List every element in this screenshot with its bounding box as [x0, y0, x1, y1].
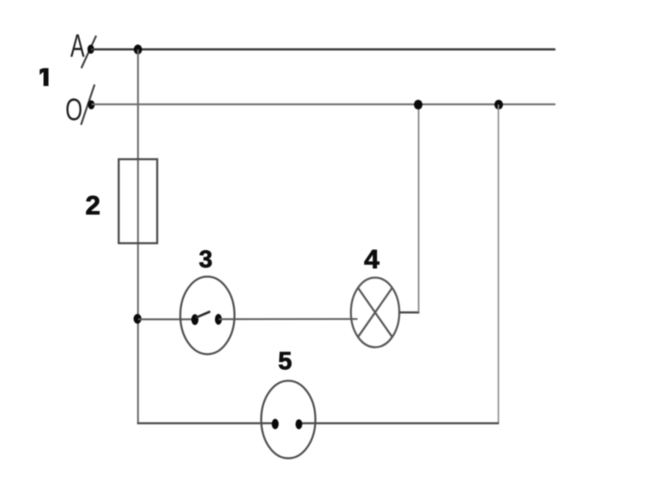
lamp L (label 4) body circle: [351, 278, 399, 348]
label 4: [365, 250, 380, 268]
wire: lamp to neutral riser: [399, 311, 419, 313]
net label A (phase): [70, 34, 84, 56]
wire: bottom run right (socket return): [300, 422, 500, 424]
wire: bottom run left (to socket): [137, 422, 276, 424]
wire: neutral line O: [92, 103, 556, 105]
lamp X stroke 1: [358, 288, 392, 337]
lamp X stroke 2: [358, 288, 392, 337]
switch right contact dot: [215, 314, 222, 325]
terminal dot at O: [88, 100, 95, 109]
socket X (label 5) body circle: [261, 381, 315, 459]
phase feed break slash at A: [81, 36, 96, 69]
wire: neutral riser for lamp: [418, 104, 420, 312]
label 5: [279, 352, 291, 369]
junction on line O (socket return): [494, 100, 503, 110]
switch lever: [197, 312, 209, 317]
junction on phase drop (node to switch branch): [134, 314, 142, 324]
wire: phase line A: [91, 48, 555, 50]
fuse F (label 2) rectangle: [119, 159, 158, 243]
wire: neutral riser and bottom run for socket: [497, 105, 499, 423]
socket right contact dot: [296, 419, 303, 429]
junction on line O (lamp return): [414, 100, 423, 110]
label 2: [86, 196, 99, 214]
label 1 (feed group): [40, 68, 49, 86]
label 3: [200, 250, 212, 267]
terminal dot at A: [87, 45, 94, 54]
wire: phase drop from A through fuse to bottom run: [137, 49, 139, 423]
socket left contact dot: [272, 419, 279, 429]
junction on line A (node to fuse branch): [134, 45, 142, 55]
neutral feed break slash at O: [81, 85, 95, 125]
wire: junction to switch left contact: [138, 318, 195, 320]
net label O (neutral): [66, 98, 81, 120]
wire: switch to lamp: [219, 318, 358, 320]
switch left contact dot: [191, 314, 198, 325]
switch S (label 3) body circle: [180, 277, 234, 355]
